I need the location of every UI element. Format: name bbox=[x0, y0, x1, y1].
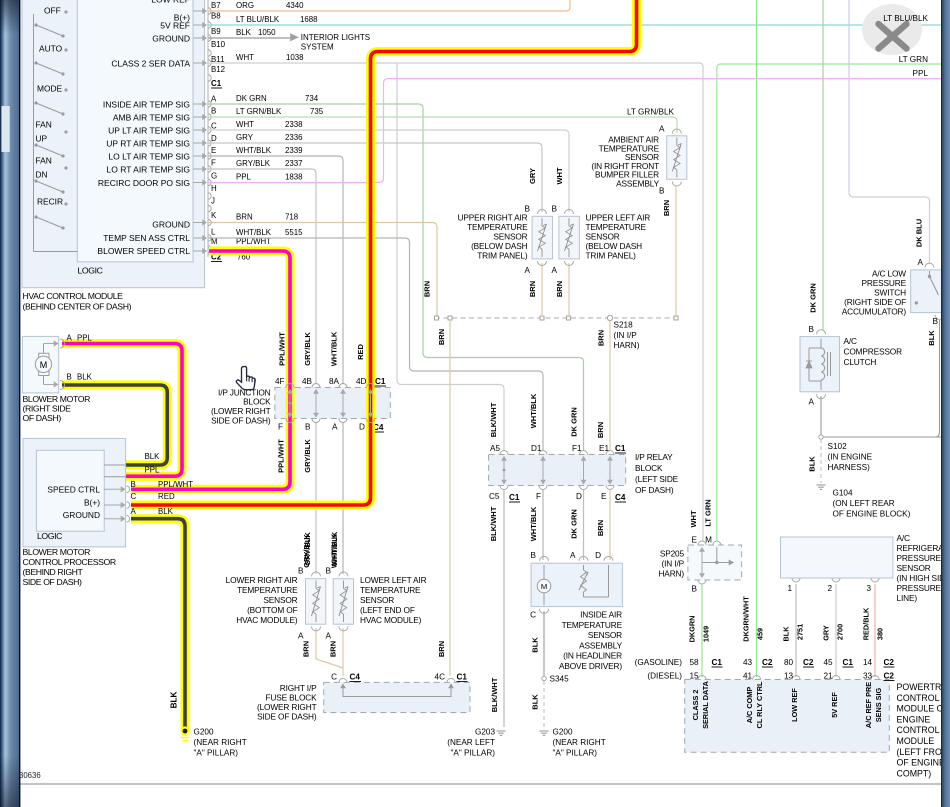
svg-text:B10: B10 bbox=[211, 40, 226, 49]
svg-text:BRN: BRN bbox=[662, 200, 671, 216]
svg-text:BRN: BRN bbox=[329, 641, 338, 657]
svg-text:WHT/BLK: WHT/BLK bbox=[236, 228, 272, 237]
switch blade bbox=[64, 48, 67, 51]
svg-text:1: 1 bbox=[787, 584, 792, 593]
svg-text:A/C LOW: A/C LOW bbox=[872, 269, 906, 279]
svg-text:C: C bbox=[211, 122, 217, 131]
AC compressor clutch box bbox=[800, 337, 840, 392]
relay block pass arrows bbox=[503, 460, 505, 485]
highlighted wire PPL/WHT blower speed ctrl bbox=[131, 251, 290, 489]
svg-text:SENSOR: SENSOR bbox=[493, 232, 527, 242]
svg-text:CL RLY CTRL: CL RLY CTRL bbox=[755, 681, 764, 728]
svg-text:380: 380 bbox=[876, 628, 885, 640]
wire DK GRN to compressor clutch bbox=[822, 0, 824, 330]
clutch pin arcs bbox=[817, 330, 826, 335]
svg-text:WHT: WHT bbox=[236, 53, 254, 62]
svg-text:GRY: GRY bbox=[822, 625, 831, 641]
svg-text:LOGIC: LOGIC bbox=[78, 266, 103, 276]
svg-text:2338: 2338 bbox=[285, 120, 303, 129]
svg-text:BLOCK: BLOCK bbox=[635, 463, 663, 473]
svg-text:UP LT AIR TEMP SIG: UP LT AIR TEMP SIG bbox=[108, 126, 190, 136]
svg-text:C1: C1 bbox=[375, 377, 386, 386]
svg-text:HARNESS): HARNESS) bbox=[828, 463, 871, 472]
svg-text:BRN: BRN bbox=[528, 281, 537, 297]
wire BRN lower right sensor A down bbox=[316, 628, 343, 668]
wire DK GRN 734 from pin A bbox=[208, 104, 584, 451]
svg-text:TEMPERATURE: TEMPERATURE bbox=[562, 620, 623, 630]
svg-text:BLK/WHT: BLK/WHT bbox=[489, 402, 498, 437]
svg-text:LT GRN/BLK: LT GRN/BLK bbox=[627, 108, 675, 117]
upper left air temp sensor box bbox=[559, 216, 580, 259]
svg-text:LINE): LINE) bbox=[897, 593, 918, 603]
junction block pass arrows bbox=[315, 393, 317, 418]
junction block pin arc top bbox=[286, 384, 294, 388]
ambient air temp sensor box bbox=[667, 136, 687, 180]
svg-text:MODE: MODE bbox=[37, 84, 63, 94]
svg-text:C4: C4 bbox=[615, 493, 626, 502]
svg-text:COMPT): COMPT) bbox=[897, 768, 932, 778]
svg-text:A: A bbox=[659, 125, 665, 134]
svg-text:4D: 4D bbox=[356, 377, 367, 386]
svg-text:ASSEMBLY: ASSEMBLY bbox=[616, 179, 660, 189]
svg-text:LT GRN/BLK: LT GRN/BLK bbox=[236, 107, 282, 116]
svg-text:718: 718 bbox=[285, 212, 299, 221]
svg-text:SENS SIG: SENS SIG bbox=[874, 687, 883, 722]
svg-text:HVAC MODULE): HVAC MODULE) bbox=[360, 615, 422, 625]
svg-text:B7: B7 bbox=[211, 1, 221, 10]
svg-text:C: C bbox=[331, 673, 337, 682]
svg-text:DK GRN: DK GRN bbox=[570, 407, 579, 437]
highlighted wire BLK blower motor B bbox=[62, 385, 167, 465]
svg-text:B: B bbox=[552, 205, 558, 214]
svg-text:CLASS 2 SER DATA: CLASS 2 SER DATA bbox=[111, 59, 190, 69]
svg-text:RECIR: RECIR bbox=[37, 197, 63, 207]
svg-text:WHT/BLK: WHT/BLK bbox=[236, 146, 272, 155]
svg-text:GRY: GRY bbox=[528, 168, 537, 184]
svg-text:PRESSURE: PRESSURE bbox=[897, 553, 942, 563]
svg-text:C1: C1 bbox=[615, 444, 626, 453]
junction block pin arc bottom bbox=[312, 419, 320, 423]
wire LT GRN top right bbox=[717, 64, 941, 541]
svg-text:14: 14 bbox=[863, 658, 873, 667]
svg-text:BRN: BRN bbox=[597, 330, 606, 346]
svg-text:C1: C1 bbox=[211, 79, 222, 88]
svg-text:A: A bbox=[298, 632, 304, 641]
svg-text:D: D bbox=[211, 134, 217, 143]
wire BLK 1050 from B9 bbox=[208, 37, 290, 39]
wire BLK compressor clutch A to S102 bbox=[820, 396, 822, 436]
svg-text:BLK: BLK bbox=[145, 452, 161, 461]
svg-text:735: 735 bbox=[310, 107, 324, 116]
wire BRN upper right sensor A to S218 bbox=[541, 263, 543, 316]
svg-text:C1: C1 bbox=[712, 658, 723, 667]
svg-text:2700: 2700 bbox=[836, 624, 845, 640]
svg-text:B: B bbox=[933, 317, 939, 326]
svg-text:SIDE OF DASH): SIDE OF DASH) bbox=[211, 416, 271, 426]
svg-text:43: 43 bbox=[743, 658, 753, 667]
svg-text:WHT: WHT bbox=[236, 120, 254, 129]
svg-text:(LOWER RIGHT: (LOWER RIGHT bbox=[257, 702, 317, 712]
svg-text:C: C bbox=[530, 611, 536, 620]
wire BLK low pressure switch B down bbox=[935, 320, 940, 437]
svg-text:S218: S218 bbox=[614, 321, 634, 330]
svg-text:HARN): HARN) bbox=[614, 341, 640, 350]
svg-text:LO LT AIR TEMP SIG: LO LT AIR TEMP SIG bbox=[108, 152, 190, 162]
svg-text:LOW REF: LOW REF bbox=[790, 688, 799, 722]
svg-text:A: A bbox=[525, 266, 531, 275]
wire BRN upper left sensor A to S218 bbox=[568, 263, 570, 316]
svg-text:4B: 4B bbox=[302, 377, 313, 386]
wire WHT 1038 branch down to relay block bbox=[397, 63, 504, 451]
splice S218 bus bbox=[435, 317, 676, 319]
svg-text:A5: A5 bbox=[490, 444, 500, 453]
svg-text:SENSOR: SENSOR bbox=[588, 630, 622, 640]
svg-text:F: F bbox=[211, 159, 216, 168]
svg-text:B9: B9 bbox=[211, 27, 221, 36]
svg-text:G200: G200 bbox=[194, 728, 214, 737]
svg-text:FAN: FAN bbox=[36, 120, 52, 130]
svg-text:D: D bbox=[576, 492, 582, 501]
switch blade bbox=[64, 202, 67, 205]
svg-text:45: 45 bbox=[824, 658, 834, 667]
svg-text:15: 15 bbox=[690, 672, 700, 681]
blower motor control processor box bbox=[23, 438, 126, 547]
svg-text:C1: C1 bbox=[457, 673, 468, 682]
wire BRN 718 from pin K to S218 bbox=[208, 223, 437, 317]
svg-text:OF ENGINE BLOCK): OF ENGINE BLOCK) bbox=[833, 510, 911, 519]
svg-text:GRY/BLK: GRY/BLK bbox=[302, 534, 311, 568]
blower motor box bbox=[22, 336, 58, 393]
svg-text:SERIAL DATA: SERIAL DATA bbox=[701, 680, 710, 729]
svg-text:PRESSURE: PRESSURE bbox=[897, 583, 942, 593]
svg-text:WHT/BLK: WHT/BLK bbox=[330, 331, 339, 366]
wire WHT/BLK junction A to lower left sensor bbox=[342, 422, 344, 574]
junction block pin arcs bbox=[286, 384, 294, 388]
svg-text:WHT: WHT bbox=[689, 510, 698, 527]
svg-text:2751: 2751 bbox=[796, 624, 805, 640]
ground G200 right bbox=[540, 730, 549, 732]
svg-text:(NEAR RIGHT: (NEAR RIGHT bbox=[553, 738, 606, 747]
junction block pin arcs bbox=[367, 384, 375, 388]
svg-text:SIDE OF DASH): SIDE OF DASH) bbox=[257, 712, 317, 722]
connector face line bbox=[207, 0, 209, 257]
svg-text:E: E bbox=[692, 536, 698, 545]
svg-text:PPL/WHT: PPL/WHT bbox=[277, 439, 286, 473]
clutch internals bbox=[820, 339, 822, 349]
svg-text:PPL: PPL bbox=[913, 69, 929, 78]
svg-text:DN: DN bbox=[36, 170, 48, 180]
svg-text:(IN I/P: (IN I/P bbox=[614, 331, 638, 340]
svg-text:(BEHIND CENTER OF DASH): (BEHIND CENTER OF DASH) bbox=[23, 302, 132, 312]
ground G203 bbox=[497, 730, 506, 732]
wire WHT to SP205 E bbox=[699, 63, 703, 541]
switch blade bbox=[64, 130, 67, 133]
svg-text:(BELOW DASH: (BELOW DASH bbox=[471, 241, 528, 251]
ground G104 bbox=[817, 484, 826, 486]
svg-text:A/C COMP: A/C COMP bbox=[745, 687, 754, 724]
junction block pin arc top bbox=[312, 384, 320, 388]
svg-text:(NEAR RIGHT: (NEAR RIGHT bbox=[194, 738, 247, 747]
svg-text:E: E bbox=[601, 492, 607, 501]
svg-text:SPEED CTRL: SPEED CTRL bbox=[47, 485, 100, 495]
highlighted wire PPL blower motor A bbox=[62, 344, 182, 477]
svg-text:RED/BLK: RED/BLK bbox=[862, 607, 871, 640]
svg-text:GRY/BLK: GRY/BLK bbox=[303, 439, 312, 473]
svg-text:AMB AIR TEMP SIG: AMB AIR TEMP SIG bbox=[113, 113, 190, 123]
HVAC pin arrows bbox=[193, 10, 204, 12]
svg-text:RED: RED bbox=[356, 344, 365, 360]
processor logic box bbox=[36, 450, 104, 531]
svg-text:BRN: BRN bbox=[423, 281, 432, 297]
svg-text:BLK: BLK bbox=[782, 626, 791, 642]
wire ORG 4340 from B7 bbox=[208, 0, 570, 11]
svg-text:D1: D1 bbox=[531, 444, 542, 453]
wire BLK S102 to right edge bbox=[823, 436, 941, 438]
svg-text:BRN: BRN bbox=[437, 641, 446, 657]
svg-text:A/C: A/C bbox=[897, 533, 911, 543]
svg-text:1050: 1050 bbox=[258, 28, 276, 37]
svg-text:WHT: WHT bbox=[555, 167, 564, 184]
svg-text:SENSOR: SENSOR bbox=[586, 232, 620, 242]
svg-text:FUSE BLOCK: FUSE BLOCK bbox=[265, 693, 317, 703]
svg-text:SENSOR: SENSOR bbox=[897, 563, 931, 573]
junction block pin arcs bbox=[339, 384, 347, 388]
svg-text:BLK: BLK bbox=[170, 692, 179, 709]
fuse block internal link bbox=[343, 684, 451, 697]
svg-text:LT BLU/BLK: LT BLU/BLK bbox=[236, 15, 280, 24]
inside air sensor motor bbox=[543, 565, 545, 580]
wire LT GRN/BLK 735 from pin B bbox=[208, 117, 677, 133]
svg-text:C5: C5 bbox=[489, 492, 500, 501]
svg-text:1049: 1049 bbox=[702, 626, 711, 642]
junction block pin arc bottom bbox=[339, 419, 347, 423]
svg-text:I/P RELAY: I/P RELAY bbox=[635, 452, 673, 462]
svg-text:C2: C2 bbox=[884, 672, 895, 681]
svg-text:AUTO: AUTO bbox=[39, 44, 63, 54]
svg-text:A: A bbox=[918, 258, 924, 267]
wire BRN S218 to fuse block 4C bbox=[449, 320, 451, 676]
upper right sensor pin arcs bbox=[538, 210, 547, 215]
junction block pin arc bottom bbox=[286, 419, 294, 423]
svg-text:TEMPERATURE: TEMPERATURE bbox=[360, 585, 421, 595]
close button bbox=[862, 4, 922, 55]
svg-text:CONTROL PROCESSOR: CONTROL PROCESSOR bbox=[23, 557, 116, 567]
svg-text:1038: 1038 bbox=[286, 53, 304, 62]
inside air sensor resistor bbox=[583, 565, 585, 570]
wire BRN relay E to inside air sensor D bbox=[609, 489, 611, 560]
svg-text:WHT/BLK: WHT/BLK bbox=[529, 506, 538, 541]
I/P junction block bbox=[275, 388, 391, 419]
svg-text:F: F bbox=[536, 492, 541, 501]
svg-text:ENGINE: ENGINE bbox=[897, 714, 931, 724]
svg-text:LOW REF: LOW REF bbox=[151, 0, 190, 5]
svg-text:A: A bbox=[570, 551, 576, 560]
svg-text:CLUTCH: CLUTCH bbox=[844, 357, 877, 367]
svg-text:A: A bbox=[211, 95, 217, 104]
svg-text:BLK: BLK bbox=[927, 330, 936, 346]
svg-text:L: L bbox=[211, 228, 216, 237]
svg-text:(DIESEL): (DIESEL) bbox=[647, 672, 682, 681]
svg-text:B: B bbox=[809, 325, 815, 334]
ambient sensor pin arcs bbox=[672, 129, 681, 134]
svg-text:B12: B12 bbox=[211, 65, 225, 74]
svg-text:H: H bbox=[211, 184, 217, 193]
lower left sensor pin arcs bbox=[339, 572, 348, 577]
svg-text:LT BLU/BLK: LT BLU/BLK bbox=[883, 14, 928, 23]
svg-text:SENSOR: SENSOR bbox=[360, 595, 394, 605]
svg-text:LOWER RIGHT AIR: LOWER RIGHT AIR bbox=[226, 575, 298, 585]
svg-text:G200: G200 bbox=[553, 728, 573, 737]
powertrain control module box bbox=[685, 680, 890, 753]
svg-text:BRN: BRN bbox=[596, 422, 605, 438]
svg-text:(GASOLINE): (GASOLINE) bbox=[635, 658, 683, 667]
svg-text:(ON LEFT REAR: (ON LEFT REAR bbox=[833, 499, 895, 508]
splice S102 junction bbox=[819, 435, 823, 439]
svg-text:K: K bbox=[211, 211, 217, 220]
S218 junction bbox=[674, 316, 678, 320]
junction block pass arrows over wire bbox=[289, 393, 291, 418]
wire GRY 2700 sensor pin2 to PCM bbox=[835, 584, 837, 677]
wire GRY/BLK 2337 from pin F to junction 4B bbox=[208, 169, 316, 384]
wire PPL top right bbox=[387, 78, 941, 80]
svg-text:MODULE: MODULE bbox=[897, 736, 935, 746]
svg-text:(BEHIND RIGHT: (BEHIND RIGHT bbox=[23, 567, 84, 577]
SP205 internals bbox=[701, 551, 703, 563]
svg-text:B: B bbox=[305, 423, 311, 432]
wire BLK 2751 sensor pin1 to PCM bbox=[795, 584, 797, 677]
svg-text:13: 13 bbox=[784, 672, 794, 681]
wire BLK S102 dashed to G104 bbox=[820, 439, 822, 483]
svg-text:BRN: BRN bbox=[555, 281, 564, 297]
svg-text:RIGHT I/P: RIGHT I/P bbox=[280, 683, 317, 693]
svg-text:CONTROL: CONTROL bbox=[897, 693, 940, 703]
AC refrigerant pressure sensor box bbox=[781, 537, 893, 578]
junction block pin arc top bbox=[339, 384, 347, 388]
svg-text:GRY: GRY bbox=[236, 133, 254, 142]
switch internals bbox=[928, 275, 931, 278]
switch pin arcs bbox=[925, 263, 934, 268]
S218 junction bbox=[608, 316, 612, 320]
svg-text:459: 459 bbox=[756, 628, 765, 640]
wire LT BLU/BLK 1688 from B8 bbox=[208, 24, 941, 26]
svg-text:DK BLU: DK BLU bbox=[915, 219, 924, 247]
svg-text:B(+): B(+) bbox=[84, 498, 100, 508]
ground G200 highlighted bbox=[180, 726, 189, 735]
svg-text:8A: 8A bbox=[329, 377, 340, 386]
svg-text:2337: 2337 bbox=[285, 159, 303, 168]
wire DK GRN relay D to inside air sensor A bbox=[583, 489, 585, 560]
svg-text:C4: C4 bbox=[350, 673, 361, 682]
wire DK GRN/WHT 459 vertical bbox=[756, 0, 758, 677]
svg-text:G203: G203 bbox=[475, 728, 495, 737]
svg-text:58: 58 bbox=[690, 658, 700, 667]
lower right air temp sensor box bbox=[306, 579, 326, 625]
right I/P fuse block bbox=[324, 682, 470, 712]
highlighted wire BLK processor ground to G200 bbox=[131, 519, 185, 729]
wire PPL 1838 from pin G bbox=[208, 79, 388, 183]
S218 junction bbox=[448, 316, 452, 320]
relay block pin arcs bbox=[606, 451, 614, 455]
svg-text:B: B bbox=[67, 373, 72, 382]
svg-text:LOWER LEFT AIR: LOWER LEFT AIR bbox=[360, 575, 427, 585]
svg-text:C2: C2 bbox=[762, 658, 773, 667]
svg-text:PPL: PPL bbox=[77, 334, 93, 343]
wire BRN lower left sensor A to fuse C4 bbox=[342, 628, 344, 676]
svg-text:BRN: BRN bbox=[437, 329, 446, 345]
svg-text:CLASS 2: CLASS 2 bbox=[691, 690, 700, 721]
AC low pressure switch box bbox=[911, 270, 942, 313]
svg-text:B8: B8 bbox=[211, 12, 221, 21]
svg-text:1838: 1838 bbox=[285, 172, 303, 181]
svg-text:UP: UP bbox=[36, 134, 48, 144]
relay block pass arrows bbox=[609, 460, 611, 485]
relay block pin arcs bbox=[539, 451, 547, 455]
wire WHT 2338 from pin C to upper left sensor bbox=[208, 130, 569, 212]
mouse cursor bbox=[236, 366, 255, 389]
svg-text:TEMPERATURE: TEMPERATURE bbox=[586, 222, 647, 232]
svg-text:BLK/WHT: BLK/WHT bbox=[489, 506, 498, 541]
S218 junction bbox=[567, 316, 571, 320]
svg-text:SENSOR: SENSOR bbox=[263, 595, 297, 605]
svg-text:F: F bbox=[278, 423, 283, 432]
svg-text:5515: 5515 bbox=[285, 228, 303, 237]
switch blade bbox=[64, 88, 67, 91]
svg-text:D: D bbox=[359, 423, 365, 432]
svg-text:BRN: BRN bbox=[236, 212, 253, 221]
svg-text:C2: C2 bbox=[803, 658, 814, 667]
svg-text:ASSEMBLY: ASSEMBLY bbox=[579, 640, 623, 650]
svg-text:BRN: BRN bbox=[302, 641, 311, 657]
interior lights arrow bbox=[291, 34, 299, 41]
svg-text:G104: G104 bbox=[833, 489, 853, 498]
svg-text:B: B bbox=[131, 480, 136, 489]
svg-text:DK GRN: DK GRN bbox=[236, 94, 267, 103]
svg-text:(RIGHT SIDE OF: (RIGHT SIDE OF bbox=[844, 297, 906, 307]
svg-text:(LEFT END OF: (LEFT END OF bbox=[360, 605, 415, 615]
svg-text:BLK: BLK bbox=[158, 507, 174, 516]
svg-text:A: A bbox=[326, 632, 332, 641]
wire BLK S345 to G200 bbox=[543, 681, 545, 727]
switch blade bbox=[64, 10, 67, 13]
svg-text:A/C: A/C bbox=[844, 336, 858, 346]
left scrollbar bbox=[0, 0, 20, 807]
svg-text:A: A bbox=[131, 507, 137, 516]
relay block pin arcs bbox=[580, 451, 588, 455]
svg-text:C1: C1 bbox=[843, 658, 854, 667]
svg-text:(IN HEADLINER: (IN HEADLINER bbox=[563, 651, 622, 661]
svg-text:A: A bbox=[332, 423, 338, 432]
svg-text:LT GRN: LT GRN bbox=[704, 499, 713, 526]
svg-text:J: J bbox=[211, 197, 215, 206]
svg-text:A: A bbox=[809, 398, 815, 407]
footer rule bbox=[19, 783, 941, 785]
junction block pass arrows over wire bbox=[370, 393, 372, 418]
svg-text:BLK: BLK bbox=[531, 694, 540, 710]
blower motor internals bbox=[43, 344, 45, 354]
upper right air temp sensor box bbox=[532, 216, 553, 259]
svg-text:ACCUMULATOR): ACCUMULATOR) bbox=[842, 307, 907, 317]
svg-text:GRY/BLK: GRY/BLK bbox=[303, 332, 312, 366]
wire WHT 1038 from B11 bbox=[208, 62, 699, 64]
HVAC logic inner box bbox=[77, 0, 193, 262]
svg-text:3: 3 bbox=[866, 584, 871, 593]
switch blade bbox=[64, 166, 67, 169]
svg-text:DKGRN/WHT: DKGRN/WHT bbox=[742, 596, 751, 642]
wire WHT/BLK 5515 from pin L to relay D1 bbox=[208, 238, 543, 451]
relay block pin arcs bbox=[500, 451, 508, 455]
wire WHT/BLK 2339 from pin E to junction 8A bbox=[208, 156, 343, 384]
svg-text:4C: 4C bbox=[435, 673, 446, 682]
